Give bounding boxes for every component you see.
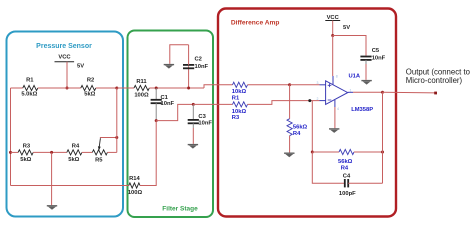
wire C4 left <box>312 152 345 183</box>
resistor R4 56k vertical <box>287 119 292 136</box>
pressure sensor box <box>7 32 124 217</box>
wire node B to R11 <box>117 87 134 89</box>
svg-text:5kΩ: 5kΩ <box>20 157 31 163</box>
svg-text:100Ω: 100Ω <box>134 93 149 99</box>
node R3/R4 junction <box>50 151 53 154</box>
svg-text:5V: 5V <box>343 25 350 31</box>
resistor R4 56k feedback <box>339 149 354 154</box>
ground (C3) <box>188 144 198 146</box>
resistor R1 <box>23 85 38 90</box>
node bridge top junction <box>66 87 69 90</box>
svg-text:8: 8 <box>336 75 338 79</box>
svg-text:56kΩ: 56kΩ <box>293 125 308 131</box>
node output junction <box>381 91 384 94</box>
wire left vertical node A <box>10 88 12 186</box>
svg-text:R14: R14 <box>129 176 140 182</box>
svg-text:Micro-controller): Micro-controller) <box>406 76 463 85</box>
svg-text:R4: R4 <box>341 166 349 172</box>
svg-text:10nF: 10nF <box>161 101 175 107</box>
capacitor C1 <box>155 88 157 100</box>
wire feedback to R4 <box>312 151 339 153</box>
wire filter out to diff amp R1 (step) <box>204 85 233 88</box>
capacitor C5 <box>360 56 371 58</box>
svg-text:10nF: 10nF <box>372 56 386 62</box>
node plus junction <box>288 83 291 86</box>
resistor R2 <box>81 85 96 90</box>
wire plus junction to op-amp <box>290 84 320 86</box>
pin 2 stub <box>320 100 326 102</box>
svg-text:VCC: VCC <box>58 55 71 61</box>
wire R3 to minus (step) <box>248 101 320 105</box>
wire VCC to op-amp pin 8 <box>332 36 334 77</box>
node minus feedback tap <box>308 99 311 102</box>
svg-text:Difference Amp: Difference Amp <box>231 19 280 26</box>
wire right vertical node B <box>116 88 118 152</box>
node left rail R3 junction <box>9 151 12 154</box>
node R4 right junction <box>381 151 384 154</box>
wire VCC down <box>332 21 334 36</box>
capacitor C2 <box>188 66 190 88</box>
svg-text:10kΩ: 10kΩ <box>232 89 247 95</box>
svg-text:100Ω: 100Ω <box>128 190 143 196</box>
wire feedback vertical <box>311 101 313 152</box>
svg-text:R2: R2 <box>87 78 94 84</box>
svg-text:C3: C3 <box>198 114 206 120</box>
resistor R1 (diff amp) <box>233 82 248 87</box>
svg-text:R3: R3 <box>232 115 240 121</box>
wire VCC to C5 <box>333 36 366 56</box>
svg-text:2: 2 <box>317 97 319 101</box>
svg-text:R1: R1 <box>26 78 34 84</box>
svg-text:10nF: 10nF <box>195 64 209 70</box>
wire op-amp to ground <box>334 107 336 128</box>
svg-text:U1A: U1A <box>349 74 361 80</box>
power VCC 5V (diff amp) <box>325 20 340 22</box>
node wiper junction <box>115 136 118 139</box>
node VCC junction <box>331 34 334 37</box>
svg-text:C4: C4 <box>343 174 351 180</box>
wire output to terminal <box>383 91 436 94</box>
wire output vertical <box>382 92 384 183</box>
ground (C5) <box>361 80 371 82</box>
op-amp U1A <box>326 81 348 105</box>
wire R4 to R5 <box>82 151 92 153</box>
svg-text:5kΩ: 5kΩ <box>84 92 95 98</box>
wire R11 to C2 node <box>149 87 204 89</box>
filter stage box <box>128 31 214 218</box>
wire output <box>353 91 383 93</box>
capacitor C4 <box>344 179 346 187</box>
output terminal <box>434 92 437 95</box>
wire R1 to junction <box>38 87 81 89</box>
wire bridge mid to ground <box>51 152 53 205</box>
svg-text:100pF: 100pF <box>339 191 356 197</box>
power VCC 5V (bridge) <box>55 61 75 63</box>
svg-text:5V: 5V <box>77 64 84 70</box>
wire R5 right lead <box>107 151 116 153</box>
svg-text:VCC: VCC <box>327 15 340 21</box>
wire bottom row <box>11 151 19 153</box>
pin 1 stub <box>348 91 353 93</box>
svg-text:R1: R1 <box>232 95 240 101</box>
wire R3 to gnd junction <box>33 151 67 153</box>
potentiometer R5 <box>92 150 107 155</box>
svg-text:R4: R4 <box>72 143 80 149</box>
node C2 bottom junction <box>187 87 190 90</box>
svg-text:56kΩ: 56kΩ <box>338 159 353 165</box>
svg-text:R4: R4 <box>293 131 301 137</box>
node B junction <box>115 87 118 90</box>
svg-text:1: 1 <box>350 88 352 92</box>
wire R4 vertical drop <box>289 85 291 119</box>
svg-text:R5: R5 <box>95 158 103 164</box>
resistor R3 (diff amp) <box>233 102 248 107</box>
resistor R14 <box>129 183 140 188</box>
wire R5 wiper <box>100 137 117 139</box>
difference amp box <box>218 9 396 217</box>
svg-text:LM358P: LM358P <box>351 107 373 113</box>
svg-text:C2: C2 <box>195 57 202 63</box>
ground (C2) <box>164 64 174 66</box>
wire R4 to ground <box>289 136 291 153</box>
svg-text:R3: R3 <box>23 143 31 149</box>
wire R4 to output node <box>354 151 383 153</box>
capacitor C3 <box>192 104 194 120</box>
svg-text:Filter Stage: Filter Stage <box>162 206 198 213</box>
svg-text:C5: C5 <box>372 48 380 54</box>
pin 3 stub <box>320 84 326 86</box>
svg-text:5.0kΩ: 5.0kΩ <box>21 92 37 98</box>
ground (op-amp) <box>329 128 339 130</box>
ground (pressure sensor) <box>47 205 57 207</box>
svg-text:R11: R11 <box>136 79 147 85</box>
node feedback bottom junction <box>311 151 314 154</box>
wire C3 node to diff amp R3 <box>193 103 232 105</box>
wire top rail left <box>11 87 23 89</box>
svg-text:10kΩ: 10kΩ <box>232 109 247 115</box>
ground (R4) <box>284 152 294 154</box>
pin 4 stub <box>334 100 336 107</box>
wire VCC to bridge top <box>66 62 68 88</box>
wire C4 right <box>348 182 382 184</box>
wire R1 to plus junction <box>248 84 290 86</box>
wire bottom node A to R14 <box>11 185 129 187</box>
wire R14 to C1 bottom <box>140 121 156 186</box>
node C1 bottom junction <box>155 119 158 122</box>
resistor R3 <box>18 150 33 155</box>
svg-text:5kΩ: 5kΩ <box>68 157 79 163</box>
node C3 top junction <box>192 103 195 106</box>
svg-text:Pressure Sensor: Pressure Sensor <box>36 43 92 50</box>
node C1 top junction <box>155 87 158 90</box>
resistor R11 <box>134 85 149 90</box>
wire C1 bottom to C3 top <box>156 104 193 120</box>
wire C2 top to ground <box>170 45 189 64</box>
svg-text:3: 3 <box>317 81 319 85</box>
resistor R4 <box>67 150 82 155</box>
wire R2 to node B <box>96 87 117 89</box>
pin 8 stub <box>332 76 334 85</box>
svg-text:10nF: 10nF <box>198 120 212 126</box>
svg-text:4: 4 <box>337 107 339 111</box>
